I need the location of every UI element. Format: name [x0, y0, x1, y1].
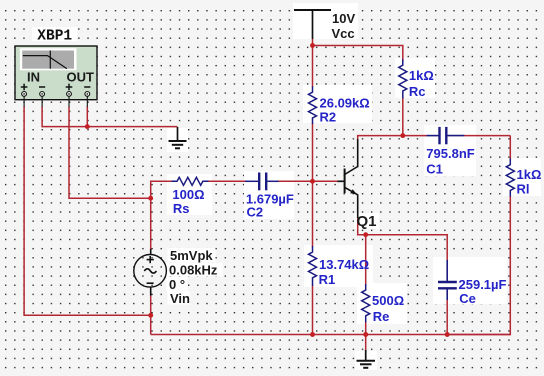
wire R2 top [312, 46, 314, 88]
wire Re bottom to rail and ground [365, 322, 367, 335]
svg-text:100Ω: 100Ω [172, 187, 204, 202]
wire base node to Q1 base [313, 180, 341, 182]
wire R1 bottom to rail [312, 286, 314, 335]
wire IN+ down and right to Vin- node [24, 107, 151, 316]
node OUT-/IN- gnd run [85, 124, 90, 129]
svg-text:1kΩ: 1kΩ [409, 68, 434, 83]
svg-text:IN: IN [27, 70, 40, 85]
node output Rc/C1 [400, 133, 405, 138]
svg-text:0 °: 0 ° [169, 277, 185, 292]
node rail R1 [310, 332, 315, 337]
wire base node down to R1 [312, 181, 314, 247]
svg-text:5mVpk: 5mVpk [170, 248, 213, 263]
node Vcc/Rc/R2 [310, 43, 315, 48]
resistor Rc 1k [399, 59, 407, 98]
svg-text:Rl: Rl [517, 181, 530, 196]
transistor Q1 [338, 139, 358, 218]
svg-text:Vcc: Vcc [332, 26, 355, 41]
Vcc power symbol [294, 10, 331, 39]
svg-text:R1: R1 [319, 272, 336, 287]
source Vin [134, 249, 167, 296]
wire Vin+ up and right to Rs [151, 181, 172, 249]
node input Vin/Rs/OUT+ [148, 196, 153, 201]
plus/minus marks [21, 84, 91, 91]
svg-text:Q1: Q1 [357, 213, 377, 230]
node emitter/Re [363, 232, 368, 237]
svg-text:795.8nF: 795.8nF [426, 146, 474, 161]
wire emitter node down to Re [365, 235, 367, 285]
terminals [22, 92, 90, 108]
svg-text:500Ω: 500Ω [372, 293, 404, 308]
resistor Rl 1k [506, 159, 514, 197]
svg-text:Re: Re [373, 309, 390, 324]
resistor R1 13.74k [309, 246, 317, 286]
wire C2 to base node [277, 180, 313, 182]
svg-text:Rs: Rs [173, 201, 190, 216]
wire collector to output node [358, 136, 428, 140]
wire IN- down and right to ground [42, 107, 177, 127]
svg-text:XBP1: XBP1 [37, 28, 72, 44]
svg-text:26.09kΩ: 26.09kΩ [320, 96, 370, 111]
ground below Re [357, 350, 376, 368]
instrument XBP1 Bode plotter [15, 46, 97, 107]
svg-text:13.74kΩ: 13.74kΩ [319, 257, 369, 272]
wire OUT+ down and right to input node [69, 107, 151, 199]
wire Rs to C2 [208, 180, 247, 182]
wire Vcc junction to Rc top [312, 39, 314, 46]
wire bottom rail [151, 334, 511, 336]
svg-text:R2: R2 [320, 110, 337, 125]
wire Vin minus down to rail [150, 295, 152, 335]
node base R2/R1 [310, 179, 315, 184]
svg-text:10V: 10V [332, 11, 355, 26]
capacitor Ce 259.1uF (vertical) [438, 260, 457, 300]
node rail Ce [445, 332, 450, 337]
wire OUT- down to ground run [86, 107, 88, 127]
resistor Re 500 [362, 284, 370, 323]
wire R2 bottom to base node [312, 124, 314, 182]
capacitor C1 795.8nF (horizontal) [427, 127, 465, 144]
svg-text:C2: C2 [247, 205, 264, 220]
svg-text:0.08kHz: 0.08kHz [169, 262, 218, 277]
svg-text:Vin: Vin [170, 291, 190, 306]
node rail Re/gnd [363, 332, 368, 337]
svg-text:1kΩ: 1kΩ [517, 167, 542, 182]
svg-text:Ce: Ce [459, 291, 476, 306]
resistor R2 26.09k [309, 86, 317, 124]
svg-text:C1: C1 [426, 162, 443, 177]
wire emitter down [358, 217, 448, 261]
node Vin-/IN+ [148, 313, 153, 318]
svg-text:Rc: Rc [409, 84, 426, 99]
ground near Bode plotter [169, 127, 187, 148]
wire Ce bottom to rail [446, 299, 448, 335]
capacitor C2 1.679uF (horizontal) [245, 173, 279, 191]
resistor Rs 100 (horizontal) [172, 177, 209, 185]
wire Rc bottom to output node [402, 97, 404, 136]
svg-text:OUT: OUT [67, 70, 95, 85]
wire output to Rl and down to rail [509, 136, 511, 160]
